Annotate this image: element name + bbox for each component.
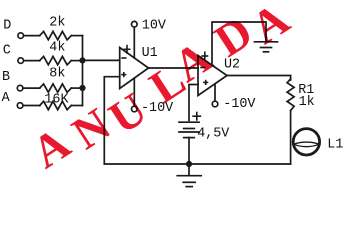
lamp L1 bbox=[293, 129, 319, 155]
U2 plus supply sign bbox=[201, 52, 208, 61]
wire R1 to bus bbox=[290, 111, 292, 165]
ground bus bottom bbox=[104, 163, 290, 165]
wire U1 output to U2 inverting input bbox=[149, 67, 199, 69]
battery plus sign bbox=[192, 112, 201, 121]
resistor R1 bbox=[287, 79, 294, 111]
terminal -10V U1 bbox=[132, 106, 138, 112]
summing bus wire bbox=[82, 36, 84, 106]
input terminal A bbox=[17, 103, 23, 109]
svg-text:4k: 4k bbox=[49, 40, 65, 55]
svg-text:4,5V: 4,5V bbox=[197, 126, 229, 141]
svg-text:C: C bbox=[3, 44, 11, 59]
wire U1 non-inverting input to ground bus bbox=[104, 77, 119, 164]
input terminal C bbox=[18, 58, 24, 64]
resistor 2k bbox=[40, 31, 72, 39]
svg-text:8k: 8k bbox=[49, 67, 65, 82]
wire battery to ground bus bbox=[188, 138, 190, 164]
op-amp U2 bbox=[198, 56, 227, 96]
U1 plus supply sign bbox=[124, 45, 131, 54]
wire bus to U1 inverting input bbox=[83, 59, 120, 61]
terminal -10V U2 bbox=[212, 101, 218, 107]
wire A to resistor bbox=[23, 105, 39, 107]
svg-text:L1: L1 bbox=[327, 138, 343, 153]
svg-text:10V: 10V bbox=[142, 19, 166, 34]
wire 2k to bus bbox=[71, 35, 82, 37]
resistor 8k bbox=[40, 84, 72, 92]
wire 4k to bus bbox=[71, 60, 82, 62]
svg-text:2k: 2k bbox=[49, 15, 65, 30]
wire D to resistor bbox=[24, 35, 40, 37]
wire U2 non-inverting input to battery bbox=[189, 85, 198, 121]
input terminal D bbox=[18, 33, 24, 39]
U1 V+ supply wire bbox=[133, 27, 135, 58]
ground symbol bottom bbox=[188, 164, 190, 176]
svg-text:U1: U1 bbox=[142, 46, 158, 61]
wire U2 output to R1 bbox=[227, 76, 291, 81]
terminal 10V bbox=[132, 21, 138, 27]
U1 plus input sign bbox=[121, 72, 126, 77]
op-amp U1 bbox=[120, 48, 149, 89]
wire C to resistor bbox=[24, 60, 40, 62]
junction node battery-ground bbox=[186, 161, 192, 167]
U1 V- supply wire bbox=[133, 78, 135, 106]
resistor 4k bbox=[40, 56, 72, 64]
U2 V+ supply wire to ground bbox=[212, 22, 266, 65]
svg-text:-10V: -10V bbox=[223, 97, 255, 112]
ground top right bbox=[255, 41, 278, 43]
U1 minus input sign bbox=[121, 57, 126, 59]
U2 V- supply wire bbox=[214, 84, 216, 101]
input terminal B bbox=[17, 85, 23, 91]
wire 16K to bus bbox=[71, 105, 82, 107]
wire B to resistor bbox=[23, 87, 39, 89]
junction node B-bus bbox=[79, 85, 85, 91]
U2 minus input sign bbox=[200, 67, 205, 69]
svg-text:D: D bbox=[3, 18, 11, 33]
battery 4,5V bbox=[179, 121, 199, 123]
svg-text:B: B bbox=[2, 70, 10, 85]
wire 8k to bus bbox=[71, 87, 82, 89]
watermark ANULADA bbox=[23, 0, 298, 178]
svg-text:1k: 1k bbox=[299, 95, 315, 110]
U2 plus input sign bbox=[203, 80, 208, 85]
svg-text:A: A bbox=[2, 91, 11, 106]
resistor 16K bbox=[40, 101, 72, 109]
junction node C-bus bbox=[79, 57, 85, 63]
svg-text:16K: 16K bbox=[44, 93, 69, 108]
